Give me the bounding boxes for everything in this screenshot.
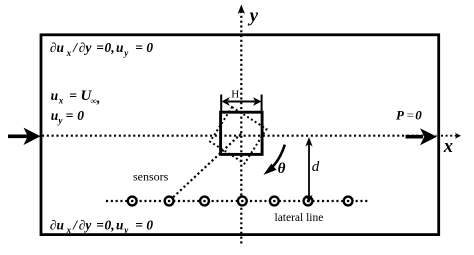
d arrow line <box>308 141 310 199</box>
svg-text:sensors: sensors <box>133 169 169 183</box>
x axis small arrowhead <box>455 133 461 139</box>
inflow arrow (left) <box>8 135 28 139</box>
diagonal dotted line from cylinder center to sensor 2 <box>169 134 241 202</box>
dotted rotated square (inclined cylinder) <box>210 107 266 163</box>
svg-text:θ: θ <box>278 161 286 177</box>
H dimension left arrowhead <box>221 97 229 106</box>
H dimension arrow line <box>228 101 255 103</box>
sensor circle 5 <box>270 197 279 206</box>
vertical dotted centerline (y axis) <box>240 11 242 246</box>
svg-text:lateral line: lateral line <box>275 212 324 224</box>
sensor circle 3 <box>200 197 209 206</box>
theta rotation arrow <box>270 145 285 170</box>
svg-text:x: x <box>443 137 453 157</box>
svg-text:d: d <box>312 159 320 175</box>
svg-text:y: y <box>248 6 259 27</box>
d arrowhead down into sensor circle <box>306 195 313 204</box>
outflow arrow (right) <box>406 135 424 139</box>
d arrowhead up at centerline <box>305 137 312 147</box>
sensor circle 2 <box>165 197 174 206</box>
H dimension witness line left <box>220 95 222 112</box>
theta arrowhead <box>263 164 276 175</box>
sensor circle 6 <box>304 197 313 206</box>
domain rectangle <box>41 35 439 235</box>
sensor circle 4 <box>238 197 247 206</box>
H dimension witness line right <box>261 95 263 112</box>
square cylinder <box>221 112 263 154</box>
sensor circle 1 <box>128 197 137 206</box>
svg-text:H: H <box>231 88 239 100</box>
svg-text:uy=0: uy=0 <box>51 108 85 126</box>
sensors dotted line <box>106 200 370 202</box>
x axis dashed extension beyond wall <box>441 135 457 137</box>
y-axis arrowhead <box>238 5 245 15</box>
horizontal dotted centerline <box>42 135 437 137</box>
H dimension right arrowhead <box>253 97 261 106</box>
sensor circle 7 <box>344 197 353 206</box>
svg-text:P=0: P=0 <box>396 108 422 123</box>
